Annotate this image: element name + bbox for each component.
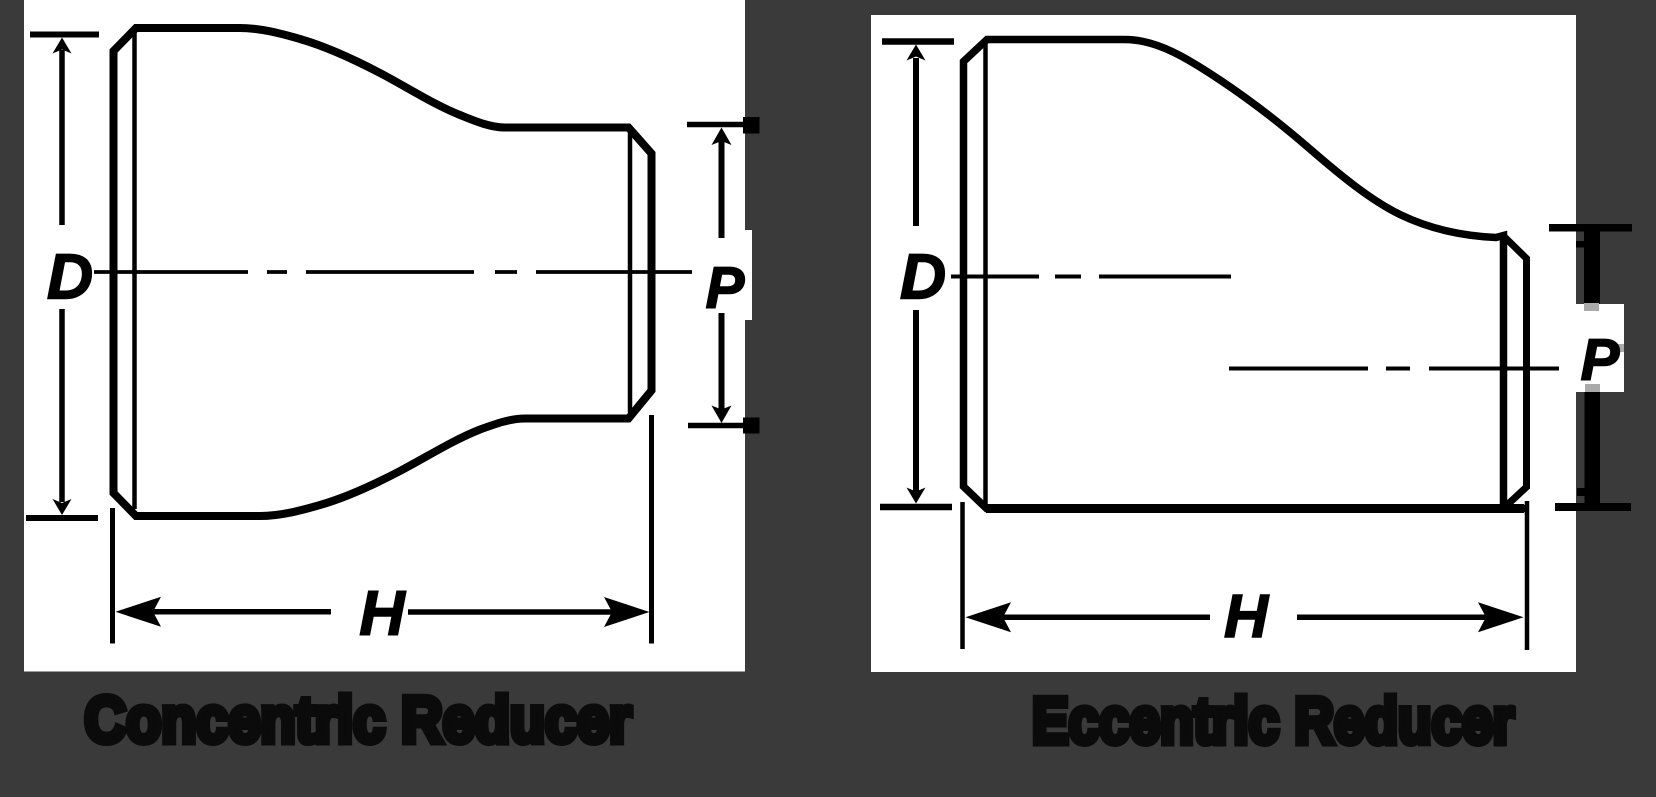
dimension P right: top thick shaft [1584, 231, 1600, 304]
concentric reducer centerline [94, 270, 692, 274]
left P label white protrusion [744, 230, 752, 320]
concentric reducer big-end inner weld line [132, 30, 137, 509]
eccentric reducer bottom-right lip [1503, 505, 1526, 513]
dimension H left: right extension line [649, 415, 654, 644]
svg-text:D: D [47, 241, 93, 313]
right white panel [871, 15, 1576, 672]
svg-text:P: P [1581, 328, 1620, 393]
eccentric reducer small-end outer bevel band [1504, 236, 1527, 507]
dimension H right: left line segment [1000, 615, 1210, 621]
dimension P left: bottom tick [688, 423, 745, 429]
svg-text:H: H [1224, 582, 1270, 650]
dimension P right: top shaft gray artifact [1584, 303, 1599, 311]
concentric reducer small-end inner weld line [628, 130, 633, 413]
dimension D right: top tick [882, 38, 954, 45]
right P label white box [1576, 304, 1624, 392]
svg-text:Eccentric Reducer: Eccentric Reducer [1032, 684, 1514, 757]
dimension H left: right barbed arrowhead [604, 597, 650, 627]
dimension P left: lower arrow shaft [719, 313, 725, 411]
eccentric reducer big-end inner weld line [983, 42, 988, 506]
dimension P right: top shaft left notch [1576, 241, 1584, 248]
dimension D left: lower arrow shaft [59, 309, 65, 502]
dimension H right: right line segment [1297, 615, 1490, 621]
dimension H left: left barbed arrowhead [116, 597, 162, 627]
dimension D left: bottom tick [26, 515, 98, 521]
dimension P left: upper arrow shaft [719, 141, 725, 238]
dimension P left: bottom square end [743, 418, 760, 434]
eccentric reducer centerline D [951, 275, 1231, 279]
dimension P right: bottom shaft gray artifact [1585, 384, 1600, 392]
dimension D right: lower arrow shaft [913, 310, 919, 492]
dimension H left: left extension line [110, 508, 115, 644]
eccentric reducer body outline [964, 40, 1504, 509]
concentric reducer body outline [114, 28, 652, 516]
dimension D left: down arrowhead [53, 499, 72, 515]
eccentric reducer centerline P [1229, 367, 1559, 371]
dimension H right: left barbed arrowhead [966, 602, 1012, 632]
dimension P left: top tick [687, 122, 745, 128]
dimension P left: up arrowhead [712, 128, 732, 146]
dimension H right: right extension line [1525, 501, 1530, 650]
svg-text:D: D [900, 241, 946, 313]
dimension H right: right barbed arrowhead [1478, 602, 1524, 632]
eccentric reducer bottom flat line (thick) [986, 504, 1524, 513]
dimension D right: down arrowhead [907, 488, 926, 504]
dimension P left: top square end [743, 117, 760, 134]
dimension P right: mid gray artifact [1617, 344, 1624, 352]
svg-text:Concentric Reducer: Concentric Reducer [85, 683, 632, 756]
dimension P right: bottom thick shaft [1585, 392, 1601, 503]
svg-text:H: H [359, 579, 406, 649]
dimension P right: bottom tick bar [1555, 503, 1631, 511]
dimension P right: top tick bar [1549, 224, 1632, 232]
dimension D right: up arrowhead [907, 45, 926, 61]
dimension D left: top tick [30, 32, 99, 38]
dimension D right: upper arrow shaft [913, 58, 919, 226]
dimension D left: upper arrow shaft [59, 50, 65, 225]
dimension H left: left line segment [150, 609, 331, 615]
dimension H right: left extension line [960, 502, 965, 649]
dimension H left: right line segment [408, 609, 620, 615]
svg-text:P: P [706, 256, 745, 321]
dimension D right: bottom tick [880, 504, 952, 511]
dimension P right: bottom shaft left notch [1577, 488, 1585, 496]
dimension D left: up arrowhead [53, 38, 72, 54]
left white panel [24, 0, 745, 672]
dimension P left: down arrowhead [712, 406, 732, 424]
